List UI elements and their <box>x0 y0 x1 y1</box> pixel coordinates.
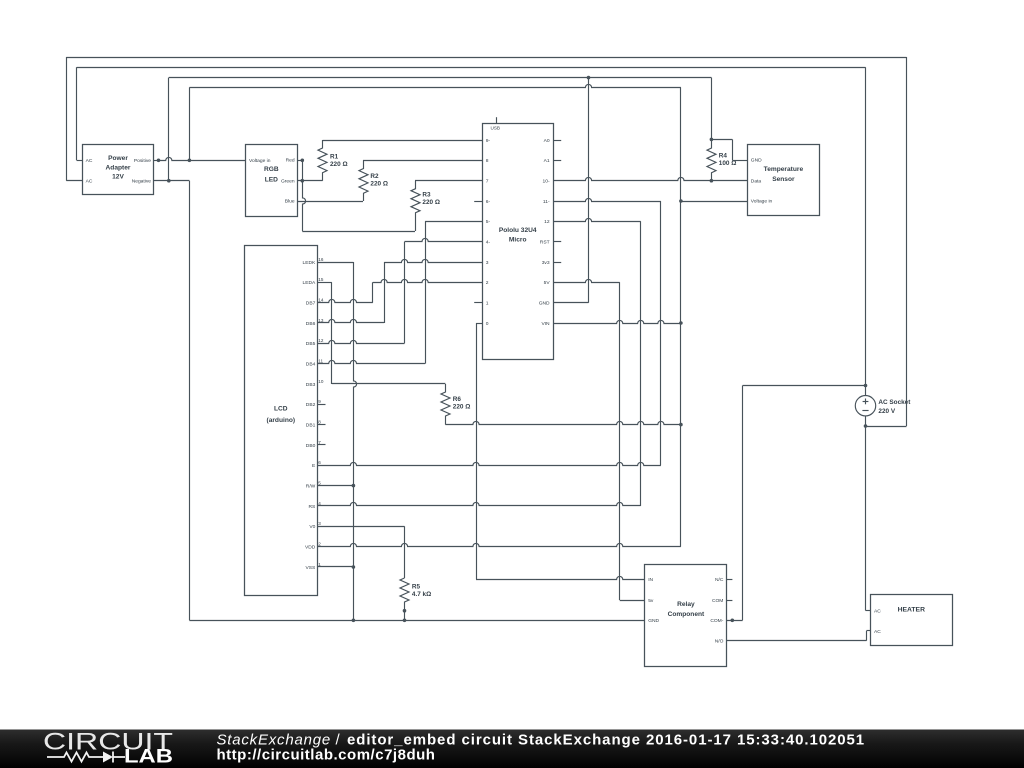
svg-text:GND: GND <box>539 301 550 307</box>
pin N/C stub <box>727 579 733 581</box>
svg-text:LEDA: LEDA <box>303 280 317 286</box>
label R1 <box>330 154 348 169</box>
svg-text:VIN: VIN <box>541 321 550 327</box>
svg-text:2: 2 <box>486 280 489 286</box>
svg-text:DB1: DB1 <box>306 422 316 428</box>
wire Green to R1 <box>297 180 323 182</box>
node GND vertical at rail <box>352 619 356 623</box>
pin USB stub <box>496 117 498 123</box>
svg-text:Data: Data <box>751 178 762 184</box>
svg-text:1: 1 <box>486 301 489 307</box>
wire net AC2 second rail <box>77 67 866 69</box>
svg-text:3: 3 <box>318 521 321 526</box>
svg-text:6: 6 <box>318 460 321 465</box>
svg-text:0: 0 <box>486 321 489 327</box>
svg-text:Component: Component <box>668 611 705 618</box>
wire DB5 <box>318 340 405 343</box>
svg-text:AC: AC <box>86 158 93 164</box>
node AC socket top <box>864 384 868 388</box>
wire DB4 riser <box>425 221 427 363</box>
power adapter PS1 box <box>83 145 154 195</box>
pin COM stub <box>727 600 733 602</box>
Temperature Sensor box <box>748 145 820 216</box>
node Red tie <box>301 159 305 163</box>
svg-text:LAB: LAB <box>124 747 173 768</box>
footer bar <box>0 730 1024 768</box>
node R4 bottom on Data <box>710 179 714 183</box>
wire DB6 riser <box>384 262 386 323</box>
svg-text:4.7 kΩ: 4.7 kΩ <box>412 591 431 598</box>
node +12V at Temp Voltage in <box>679 199 683 203</box>
svg-text:5V: 5V <box>544 280 551 286</box>
svg-text:15: 15 <box>318 277 324 282</box>
svg-text:RST: RST <box>540 240 550 246</box>
wire AC1 left drop to power adapter <box>66 57 82 181</box>
node +12V at R6 path <box>679 423 683 427</box>
svg-text:Green: Green <box>281 178 295 184</box>
LCD pin labels <box>303 257 324 571</box>
wire net AC1 top rail <box>66 57 906 59</box>
wire pin 0 drop <box>476 323 482 579</box>
wire pin 3 to DB6 riser <box>384 259 482 262</box>
svg-text:AC: AC <box>86 178 93 184</box>
svg-text:5v: 5v <box>648 598 654 604</box>
pin 1 stub <box>474 302 482 304</box>
resistor R2 <box>359 160 368 201</box>
LCD name <box>267 406 296 424</box>
wire 11- riser to E <box>553 198 661 465</box>
svg-text:R/W: R/W <box>306 483 316 489</box>
wire DB6 <box>318 319 385 322</box>
svg-text:Voltage in: Voltage in <box>249 158 271 164</box>
wire LEDA to R6 <box>332 383 446 385</box>
HEATER pin labels <box>874 609 881 635</box>
wire LEDK to GND vertical <box>318 262 354 264</box>
node VSS junction <box>352 565 356 569</box>
svg-text:Blue: Blue <box>285 199 295 205</box>
wire 5V riser <box>553 279 645 600</box>
svg-text:(arduino): (arduino) <box>267 417 296 424</box>
svg-text:AC: AC <box>874 609 881 615</box>
svg-text:Temperature: Temperature <box>764 166 804 173</box>
svg-text:LEDK: LEDK <box>303 260 317 266</box>
svg-text:DB5: DB5 <box>306 341 316 347</box>
Temperature Sensor name <box>764 166 804 183</box>
wire COM- to AC socket <box>727 386 866 621</box>
Relay Component box <box>645 565 727 667</box>
node COM- stub <box>731 619 735 623</box>
footer url line <box>217 746 436 763</box>
svg-text:V0: V0 <box>309 524 315 530</box>
svg-text:DB4: DB4 <box>306 361 316 367</box>
svg-text:LCD: LCD <box>274 406 288 413</box>
pin 6- stub <box>474 201 482 203</box>
wire LEDA drop <box>318 282 332 384</box>
wire ground rail <box>189 620 644 622</box>
svg-text:Pololu 32U4: Pololu 32U4 <box>499 227 537 234</box>
wire R4 top to Temp GND <box>711 139 747 160</box>
svg-text:2: 2 <box>318 541 321 546</box>
RGB LED box <box>246 145 298 217</box>
wire Positive to RGB Voltage in <box>154 157 245 160</box>
svg-text:12: 12 <box>544 219 550 225</box>
svg-text:10: 10 <box>318 379 324 384</box>
svg-text:N/C: N/C <box>715 577 724 583</box>
wire Negative <box>154 180 190 182</box>
svg-text:RS: RS <box>309 504 317 510</box>
svg-text:DB2: DB2 <box>306 402 316 408</box>
wire VSS to GND vertical <box>318 566 354 568</box>
svg-text:RGB: RGB <box>264 166 279 173</box>
svg-text:220 Ω: 220 Ω <box>330 161 348 168</box>
svg-text:DB0: DB0 <box>306 443 316 449</box>
label R4 <box>719 152 737 167</box>
label R3 <box>422 191 440 206</box>
CircuitLab logo symbol <box>47 752 125 763</box>
resistor R4 <box>707 139 716 180</box>
wire net +12V fourth rail <box>189 84 681 87</box>
wire V0 to R5 <box>318 526 405 578</box>
wire GND drop to Negative <box>168 78 170 181</box>
svg-text:10-: 10- <box>543 179 550 185</box>
svg-text:A0: A0 <box>544 138 550 144</box>
Temperature Sensor pin labels <box>751 157 773 204</box>
pin DB1 stub <box>318 424 326 426</box>
node R/W junction <box>352 484 356 488</box>
svg-text:220 V: 220 V <box>878 408 895 415</box>
wire 12 riser to RS <box>553 218 641 506</box>
Pololu 32U4 Micro box <box>483 124 554 360</box>
svg-text:http://circuitlab.com/c7j8duh: http://circuitlab.com/c7j8duh <box>217 746 436 763</box>
resistor R5 <box>400 578 409 620</box>
AC socket V1 symbol <box>855 67 875 610</box>
svg-text:6-: 6- <box>486 199 491 205</box>
pin DB2 stub <box>318 404 326 406</box>
svg-text:LED: LED <box>265 176 278 183</box>
footer title line <box>217 731 866 748</box>
svg-text:IN: IN <box>648 577 653 583</box>
wire GND pin drop <box>553 78 588 303</box>
svg-text:R1: R1 <box>330 154 339 161</box>
wire 10- to Temp Data <box>553 177 747 180</box>
pin DB0 stub <box>318 444 326 446</box>
wire +12V drop to Positive <box>189 87 191 160</box>
wire Blue to R2 <box>297 201 363 203</box>
node AC socket bottom <box>864 424 868 428</box>
node Positive stub <box>157 159 161 163</box>
LCD (arduino) box <box>245 246 318 596</box>
svg-text:DB6: DB6 <box>306 321 316 327</box>
wire +12V main drop <box>680 87 682 546</box>
node +12V drop junction <box>188 159 192 163</box>
svg-text:COM: COM <box>712 598 723 604</box>
svg-text:R6: R6 <box>453 396 462 403</box>
wire R6 bottom to +12V drop <box>445 421 681 424</box>
label R5 <box>412 583 431 598</box>
RGB LED pin labels <box>249 158 295 205</box>
svg-text:N/O: N/O <box>715 639 724 645</box>
Relay pin labels <box>648 577 724 645</box>
svg-text:14: 14 <box>318 298 324 303</box>
svg-text:R5: R5 <box>412 583 421 590</box>
svg-text:9-: 9- <box>486 138 491 144</box>
resistor R1 <box>318 140 327 181</box>
svg-text:220 Ω: 220 Ω <box>422 199 440 206</box>
RGB LED name <box>264 166 279 183</box>
wire DB4 <box>318 360 426 363</box>
svg-text:Voltage in: Voltage in <box>751 199 773 205</box>
svg-text:Negative: Negative <box>132 178 152 184</box>
svg-text:GND: GND <box>751 157 762 163</box>
wire R2 to pin 8 <box>363 160 482 162</box>
label R2 <box>370 173 388 188</box>
svg-text:11: 11 <box>318 358 323 363</box>
wire Temp Voltage in <box>681 201 747 203</box>
svg-text:5: 5 <box>318 480 321 485</box>
CircuitLab logo text <box>43 728 173 767</box>
wire AC1 right drop <box>866 57 907 427</box>
svg-text:220 Ω: 220 Ω <box>370 181 388 188</box>
svg-text:12V: 12V <box>112 174 124 181</box>
node Green tie <box>301 179 305 183</box>
power adapter name <box>106 155 131 181</box>
svg-text:9: 9 <box>318 399 321 404</box>
wire GND rail drop to R4 <box>711 78 713 140</box>
svg-text:Red: Red <box>286 158 295 164</box>
svg-text:Positive: Positive <box>134 158 151 164</box>
wire R1 to pin 9- <box>323 140 483 142</box>
node +12V at VIN <box>679 321 683 325</box>
svg-text:12: 12 <box>318 338 324 343</box>
svg-text:R2: R2 <box>370 173 379 180</box>
svg-text:8: 8 <box>486 158 489 164</box>
wire AC2 left drop to power adapter <box>77 67 83 160</box>
svg-text:AC: AC <box>874 629 881 635</box>
wire VDD to +12V drop <box>318 543 681 546</box>
svg-text:DB3: DB3 <box>306 382 316 388</box>
wire pin 4- to DB5 riser <box>405 238 483 241</box>
Relay name <box>668 601 705 618</box>
pin A1 stub <box>553 160 561 162</box>
svg-text:4-: 4- <box>486 240 491 246</box>
svg-text:7: 7 <box>486 179 489 185</box>
svg-text:3: 3 <box>486 260 489 266</box>
label USB <box>491 126 500 131</box>
svg-text:VSS: VSS <box>306 565 317 571</box>
svg-text:5-: 5- <box>486 219 491 225</box>
wire Red-Green tie vertical <box>303 160 306 231</box>
wire R/W to GND vertical <box>318 485 354 487</box>
wire pin 0 to relay IN <box>476 576 645 579</box>
svg-text:Relay: Relay <box>677 601 695 608</box>
wire R3 to pin 7 <box>415 180 482 182</box>
svg-text:Power: Power <box>108 155 128 162</box>
wire net GND third rail <box>169 77 712 79</box>
svg-text:R3: R3 <box>422 191 431 198</box>
svg-text:R4: R4 <box>719 152 728 159</box>
wire R3 bottom path <box>302 231 415 233</box>
wire Negative down to ground rail <box>189 181 191 621</box>
node GND top rail junction <box>587 76 591 80</box>
svg-text:Micro: Micro <box>509 236 527 243</box>
node R5 lead <box>403 609 407 613</box>
label AC socket <box>878 399 911 415</box>
svg-text:16: 16 <box>318 257 324 262</box>
pin RST stub <box>553 241 561 243</box>
svg-text:GND: GND <box>648 618 659 624</box>
svg-text:Adapter: Adapter <box>106 164 131 171</box>
Pololu name <box>499 227 537 244</box>
svg-text:COM-: COM- <box>710 618 723 624</box>
Pololu pin labels <box>486 138 551 327</box>
label R6 <box>453 396 471 411</box>
wire pin 2 to DB7 riser <box>373 279 482 282</box>
HEATER name <box>898 607 926 614</box>
svg-text:Sensor: Sensor <box>772 176 795 183</box>
wire DB7 <box>318 299 373 302</box>
pin 3v3 stub <box>553 262 561 264</box>
resistor R6 <box>441 384 450 425</box>
wire N/O to heater <box>727 631 870 641</box>
wire GND vertical <box>354 262 357 620</box>
node R5 at rail <box>403 619 407 623</box>
wire E to 11- riser <box>318 462 661 465</box>
wire DB5 riser <box>404 242 406 344</box>
power adapter pin labels <box>86 158 152 184</box>
resistor R3 <box>411 181 420 231</box>
node R4 top <box>710 138 714 142</box>
svg-text:220 Ω: 220 Ω <box>453 404 471 411</box>
wire DB7 riser <box>372 282 374 302</box>
wire Red stub <box>297 160 302 162</box>
wire VIN to +12V drop <box>553 320 681 323</box>
pin A0 stub <box>553 140 561 142</box>
svg-text:A1: A1 <box>544 158 550 164</box>
svg-text:3v3: 3v3 <box>542 260 550 266</box>
node GND drop junction <box>167 179 171 183</box>
HEATER box <box>871 595 953 646</box>
svg-text:8: 8 <box>318 419 321 424</box>
svg-text:DB7: DB7 <box>306 301 316 307</box>
svg-text:HEATER: HEATER <box>898 607 926 614</box>
wire pin 5- to DB4 riser <box>425 221 482 223</box>
wire RS to 12 riser <box>318 502 641 505</box>
svg-text:VDD: VDD <box>305 544 316 550</box>
svg-text:11-: 11- <box>543 199 550 205</box>
svg-text:USB: USB <box>491 126 500 131</box>
